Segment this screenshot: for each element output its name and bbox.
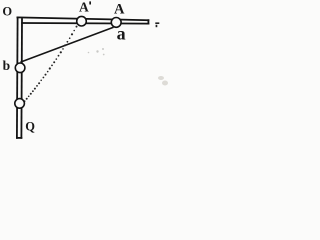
svg-text:A: A	[114, 2, 125, 18]
svg-text:Q: Q	[25, 119, 35, 133]
svg-text:b: b	[3, 58, 11, 73]
svg-text:a: a	[117, 24, 126, 44]
svg-text:A: A	[79, 0, 89, 15]
svg-text:O: O	[2, 5, 12, 19]
